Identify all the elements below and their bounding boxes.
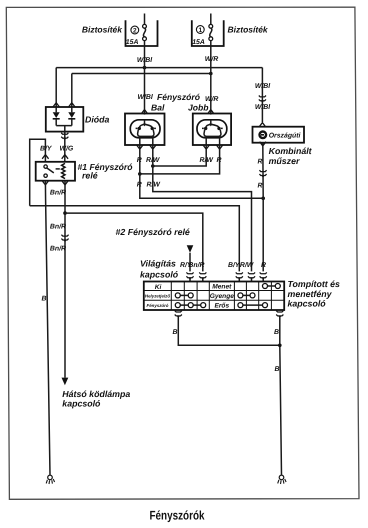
svg-text:kapcsoló: kapcsoló bbox=[288, 299, 327, 309]
svg-text:relé: relé bbox=[82, 171, 98, 181]
wire Bn/R bus D from relay 1 to switch bbox=[65, 213, 203, 271]
label Tompított és menetfény kapcsoló bbox=[288, 279, 341, 309]
svg-text:2: 2 bbox=[133, 27, 137, 34]
pin arrow into left lamp top bbox=[141, 110, 147, 114]
svg-text:Erős: Erős bbox=[214, 302, 229, 309]
svg-text:Ki: Ki bbox=[155, 284, 162, 291]
node junction Bn/R wire to bus D bbox=[63, 211, 67, 215]
label Kombinált műszer bbox=[269, 146, 313, 166]
svg-text:B: B bbox=[275, 366, 280, 373]
svg-text:Jobb: Jobb bbox=[188, 103, 209, 113]
connector B/Y into switch bbox=[236, 272, 243, 280]
svg-text:W/Bl: W/Bl bbox=[138, 94, 154, 101]
svg-text:15A: 15A bbox=[126, 39, 139, 46]
wire stubs connectors to switch top bbox=[190, 279, 263, 282]
wire W/Bl drop right to high-beam indicator bbox=[261, 68, 263, 122]
node junction fuse F1 wire on W/R bus bbox=[209, 72, 213, 76]
pin arrow into indicator top bbox=[259, 123, 265, 127]
connector Bn/R into switch bbox=[199, 272, 206, 280]
svg-text:15A: 15A bbox=[192, 39, 205, 46]
svg-text:W/R: W/R bbox=[205, 56, 218, 63]
wire R from indicator down to switch bbox=[262, 143, 264, 272]
svg-text:Bn/R: Bn/R bbox=[50, 224, 66, 231]
svg-text:Kombinált: Kombinált bbox=[269, 146, 313, 156]
svg-text:Hátsó ködlámpa: Hátsó ködlámpa bbox=[62, 389, 130, 399]
wire stubs switch bottom bbox=[177, 309, 179, 311]
wire right lamp R link to left R bbox=[140, 145, 220, 174]
svg-text:kapcsoló: kapcsoló bbox=[62, 399, 101, 409]
wire right lamp R/W link to left R/W bbox=[153, 145, 206, 166]
svg-text:Biztosíték: Biztosíték bbox=[82, 25, 123, 35]
pin arrow right lamp bottom R/W bbox=[203, 145, 209, 149]
node junction on left R/W wire bbox=[151, 164, 155, 168]
connector on diode output W/G bbox=[61, 133, 68, 141]
wire R/W from left lamp down and right to switch (bus A) bbox=[153, 145, 252, 271]
headlamp left (Fényszóró Bal) bbox=[125, 114, 165, 146]
wire fuse F1 down to right headlamp bbox=[210, 41, 212, 115]
svg-text:Tompított és: Tompított és bbox=[288, 279, 341, 289]
pin arrow into diode input 2 bbox=[69, 103, 75, 107]
label #1 Fényszóró relé bbox=[78, 162, 134, 181]
switch S1 lighting/dimmer switch table bbox=[144, 282, 284, 311]
wire fuse F2 down to left headlamp bbox=[144, 41, 146, 115]
contact row Gyenge bbox=[238, 293, 255, 298]
svg-text:R/W: R/W bbox=[240, 262, 254, 269]
diode D1a bbox=[53, 107, 60, 126]
fuse F2 (Biztosíték 2, 15A) bbox=[126, 20, 158, 46]
wire Bn/R from relay 1 right pin down to fog switch arrow bbox=[64, 181, 66, 378]
pin arrow relay 1 bottom right bbox=[62, 181, 68, 185]
pin arrow relay 1 bottom left bbox=[42, 181, 48, 185]
svg-text:Fényszóró: Fényszóró bbox=[147, 303, 169, 308]
wire R from left lamp down and right to R net (bus B) bbox=[140, 145, 263, 198]
svg-text:R: R bbox=[258, 183, 263, 190]
svg-text:Bn/R: Bn/R bbox=[50, 246, 66, 253]
svg-text:Dióda: Dióda bbox=[85, 114, 110, 124]
wire B from switch left bottom to join bbox=[178, 317, 279, 345]
svg-text:W/Bl: W/Bl bbox=[255, 83, 271, 90]
svg-text:B: B bbox=[42, 296, 47, 303]
svg-text:#2 Fényszóró relé: #2 Fényszóró relé bbox=[116, 227, 190, 237]
svg-text:menetfény: menetfény bbox=[288, 289, 333, 299]
contact row Menet R to ground bbox=[263, 284, 281, 289]
relay U1 coil bbox=[62, 163, 65, 178]
svg-text:Bal: Bal bbox=[151, 103, 165, 113]
wire B from switch right bottom to ground bbox=[280, 317, 282, 474]
svg-text:Gyenge: Gyenge bbox=[210, 293, 235, 300]
node junction B wires bbox=[278, 344, 282, 348]
label Világítás kapcsoló bbox=[140, 259, 179, 280]
wire relay 1 left pin to ground (B) bbox=[45, 181, 50, 475]
pin arrow into right lamp top bbox=[208, 110, 214, 114]
wire R/Y from relay 2 to switch bbox=[189, 253, 191, 272]
wire W/R bus from fuse F1 to diode bbox=[72, 73, 211, 75]
indicator lamp Országúti (Kombinált műszer) bbox=[253, 127, 305, 143]
svg-text:W/Bl: W/Bl bbox=[137, 57, 153, 64]
diode unit D1 box bbox=[46, 107, 84, 132]
arrow to rear fog lamp switch bbox=[62, 378, 69, 386]
connector switch bottom right B bbox=[276, 311, 283, 319]
pin arrow left lamp bottom R/W bbox=[150, 145, 156, 149]
contact row Helyzetjelző bbox=[175, 293, 193, 298]
svg-text:R: R bbox=[258, 158, 263, 165]
connector on W/Bl indicator wire bbox=[259, 96, 266, 104]
pin arrow out of indicator bottom bbox=[260, 142, 266, 146]
wire W/R drop to diode input 2 bbox=[71, 74, 73, 108]
connector on Bn/R fog wire bbox=[61, 235, 68, 243]
svg-text:Világítás: Világítás bbox=[140, 259, 176, 269]
arrow from relay 2 (R/Y feed) bbox=[187, 245, 194, 253]
pin arrow into diode input 1 bbox=[53, 103, 59, 107]
wire W/G from diode to relay 1 coil bbox=[64, 132, 66, 162]
connector R into switch bbox=[260, 272, 267, 280]
svg-text:B: B bbox=[173, 329, 178, 336]
svg-text:Fényszórók: Fényszórók bbox=[150, 509, 205, 523]
ground G2 right bbox=[278, 475, 286, 484]
svg-text:Helyzetjelző: Helyzetjelző bbox=[145, 293, 170, 298]
svg-text:Fényszóró: Fényszóró bbox=[157, 92, 200, 102]
pin arrow B/Y into relay 1 bbox=[42, 155, 48, 159]
connector switch bottom left B bbox=[175, 311, 182, 319]
node junction R bus to indicator wire bbox=[261, 197, 265, 201]
ground G1 left bbox=[46, 475, 54, 484]
svg-text:W/G: W/G bbox=[60, 145, 74, 152]
node junction on left R wire bbox=[138, 172, 142, 176]
fuse F1 (Biztosíték 1, 15A) bbox=[192, 20, 224, 46]
svg-text:Biztosíték: Biztosíték bbox=[228, 25, 269, 35]
svg-text:Országúti: Országúti bbox=[269, 132, 302, 140]
label Hátsó ködlámpa kapcsoló bbox=[62, 389, 130, 409]
wire fuse F2 top stub bbox=[144, 14, 146, 25]
wire B/Y bracket from relay 1 up-left and down to switch bus bbox=[30, 139, 46, 206]
pin arrow left lamp bottom R bbox=[137, 145, 143, 149]
connector R/Y into switch bbox=[186, 272, 193, 280]
relay U1 switch contact bbox=[44, 165, 60, 177]
headlamp right (Fényszóró Jobb) bbox=[193, 114, 231, 146]
wire W/Bl bus from fuse F2 to diode and indicator bbox=[56, 67, 262, 69]
connector R/W into switch bbox=[248, 272, 255, 280]
pin arrow W/G into relay 1 bbox=[62, 155, 68, 159]
contact row Erős bbox=[238, 303, 268, 308]
wire diode cathode join and output bbox=[56, 126, 72, 132]
svg-text:1: 1 bbox=[198, 27, 202, 34]
svg-text:Bn/R: Bn/R bbox=[50, 190, 66, 197]
svg-text:Bn/R: Bn/R bbox=[188, 262, 204, 269]
svg-text:műszer: műszer bbox=[269, 156, 300, 166]
svg-text:B/Y: B/Y bbox=[40, 145, 53, 152]
pin arrow right lamp bottom R bbox=[216, 145, 222, 149]
relay U1 #1 Fényszóró relé box bbox=[36, 162, 75, 181]
svg-text:Menet: Menet bbox=[212, 284, 232, 291]
svg-text:R: R bbox=[261, 262, 266, 269]
node junction fuse F2 wire on W/Bl bus bbox=[143, 66, 147, 70]
connector on indicator R wire bbox=[259, 170, 266, 178]
wire W/Bl drop to diode input 1 bbox=[55, 68, 57, 107]
svg-text:B: B bbox=[274, 329, 279, 336]
wire B/Y bus C from bracket to switch bbox=[30, 206, 240, 272]
svg-text:kapcsoló: kapcsoló bbox=[140, 270, 179, 280]
contact row Fényszóró bbox=[175, 303, 205, 308]
wire fuse F1 top stub bbox=[210, 14, 212, 25]
svg-text:W/Bl: W/Bl bbox=[255, 104, 271, 111]
diode D1b bbox=[68, 107, 75, 126]
